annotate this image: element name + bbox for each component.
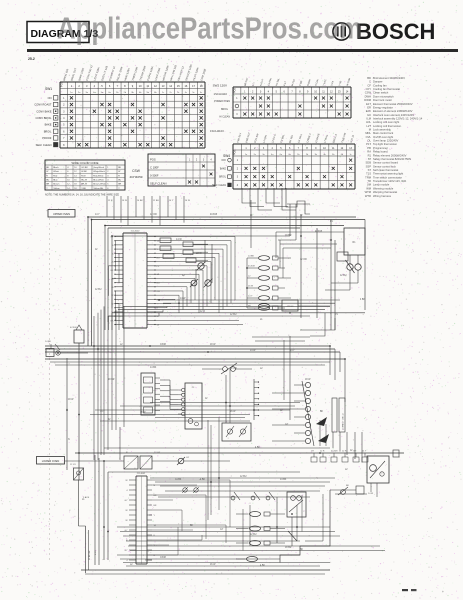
- svg-text:1c: 1c: [350, 154, 352, 156]
- svg-text:UPPER OVEN: UPPER OVEN: [53, 212, 70, 216]
- svg-text:Programmer: Programmer: [373, 146, 388, 150]
- svg-text:Relay element 2600W/240V: Relay element 2600W/240V: [373, 153, 407, 157]
- svg-text:Y-BK: Y-BK: [81, 188, 86, 190]
- svg-text:POS: POS: [150, 157, 156, 161]
- svg-text:SW2 120V: SW2 120V: [213, 84, 227, 88]
- svg-text:SDB: SDB: [365, 161, 371, 165]
- svg-text:T1S: T1S: [366, 172, 371, 176]
- svg-text:MDL: MDL: [365, 131, 371, 135]
- svg-text:OR: OR: [157, 291, 161, 293]
- svg-text:1SCH4110: 1SCH4110: [214, 92, 228, 96]
- svg-text:On/Off oven light: On/Off oven light: [373, 135, 393, 139]
- svg-text:WIRE COLOR CODE: WIRE COLOR CODE: [72, 161, 99, 165]
- svg-text:ILK: ILK: [367, 113, 371, 117]
- svg-text:Blue: Blue: [53, 179, 58, 181]
- svg-text:SW4: SW4: [223, 154, 230, 158]
- svg-text:Element of element 2400W/120V: Element of element 2400W/120V: [373, 109, 413, 113]
- svg-text:4CX08: 4CX08: [248, 266, 255, 268]
- svg-text:WTM: WTM: [365, 190, 372, 194]
- svg-text:1CL4002: 1CL4002: [131, 231, 141, 233]
- svg-text:Relay board: Relay board: [373, 150, 388, 154]
- svg-text:BROIL: BROIL: [44, 129, 52, 133]
- svg-text:C: C: [369, 80, 371, 84]
- svg-text:S7: S7: [368, 157, 372, 161]
- svg-text:Warming module: Warming module: [373, 186, 394, 190]
- svg-text:12 R: 12 R: [108, 200, 113, 202]
- svg-text:Transformer 120V-12V, 6VA: Transformer 120V-12V, 6VA: [373, 179, 406, 183]
- svg-text:Broil element 3400W/240V: Broil element 3400W/240V: [373, 76, 405, 80]
- svg-text:CF: CF: [367, 83, 371, 87]
- svg-text:12 BU: 12 BU: [153, 200, 159, 202]
- svg-text:LDL: LDL: [366, 120, 371, 124]
- svg-text:Locking coil oven light: Locking coil oven light: [373, 120, 400, 124]
- svg-text:POS: POS: [234, 150, 237, 155]
- svg-text:BAKE: BAKE: [45, 123, 52, 127]
- svg-text:BR: BR: [46, 184, 49, 186]
- svg-text:Main control lock: Main control lock: [373, 131, 394, 135]
- svg-text:SW1: SW1: [45, 87, 52, 91]
- svg-text:Door lock motor: Door lock motor: [373, 98, 392, 102]
- svg-text:SELF CLEAN: SELF CLEAN: [150, 181, 166, 185]
- svg-text:BROIL: BROIL: [219, 177, 227, 179]
- svg-text:ON: ON: [48, 96, 52, 100]
- svg-text:Lock assembly: Lock assembly: [373, 128, 391, 132]
- svg-text:Blue-White: Blue-White: [93, 178, 104, 181]
- svg-text:Damper: Damper: [373, 80, 383, 84]
- svg-text:BU: BU: [157, 257, 160, 259]
- svg-text:E2C: E2C: [366, 109, 371, 113]
- svg-text:P1T: P1T: [366, 142, 371, 146]
- svg-text:DWH: DWH: [365, 94, 371, 98]
- svg-text:CONV BROIL: CONV BROIL: [36, 116, 53, 120]
- svg-text:ST: ST: [368, 168, 372, 172]
- svg-text:14 BK: 14 BK: [137, 200, 143, 202]
- svg-text:Interlock oven element 240V/12: Interlock oven element 240V/120V: [373, 113, 414, 117]
- svg-text:Self clean thermostat: Self clean thermostat: [373, 168, 398, 172]
- svg-text:CONV ROAST: CONV ROAST: [34, 103, 52, 107]
- svg-text:Element thermostat 2500W/240V: Element thermostat 2500W/240V: [373, 102, 413, 106]
- svg-text:BROIL: BROIL: [221, 109, 229, 111]
- svg-text:DWM: DWM: [364, 98, 371, 102]
- svg-text:BR-W: BR-W: [81, 184, 88, 186]
- svg-text:POWER OVEN: POWER OVEN: [214, 101, 230, 103]
- svg-text:Gray-Black: Gray-Black: [93, 166, 105, 169]
- svg-text:OFF: OFF: [221, 160, 226, 162]
- svg-text:CFY: CFY: [366, 87, 372, 91]
- svg-text:18 W: 18 W: [196, 252, 202, 255]
- svg-text:White: White: [53, 170, 59, 173]
- svg-text:White-Black: White-Black: [93, 170, 106, 173]
- svg-text:1SCH4103: 1SCH4103: [210, 129, 224, 133]
- svg-text:Cooling fan thermostat: Cooling fan thermostat: [373, 87, 400, 91]
- svg-text:R1: R1: [368, 153, 372, 157]
- svg-text:Wiring harness: Wiring harness: [373, 194, 392, 198]
- svg-text:NOTE: THE NUMBERS (4, 14, 16,: NOTE: THE NUMBERS (4, 14, 16, 18) INDICA…: [45, 194, 119, 197]
- svg-text:BU: BU: [157, 283, 160, 285]
- svg-text:W-BK: W-BK: [81, 171, 87, 173]
- svg-text:CONV BAKE: CONV BAKE: [36, 109, 51, 113]
- svg-text:BAKE: BAKE: [220, 167, 227, 170]
- svg-text:Safety thermostat 820/241750N: Safety thermostat 820/241750N: [373, 157, 411, 161]
- svg-text:HI CLEAN: HI CLEAN: [219, 116, 230, 119]
- svg-text:BD: BD: [367, 76, 371, 80]
- svg-text:Brown: Brown: [53, 183, 60, 186]
- svg-text:14 W: 14 W: [176, 238, 182, 241]
- svg-text:Yellow: Yellow: [53, 188, 60, 190]
- svg-text:Interlock assembly 120V/1-12,: Interlock assembly 120V/1-12, 240V/1-14: [373, 116, 423, 120]
- svg-text:BOSCH: BOSCH: [356, 19, 435, 44]
- svg-text:14 Y: 14 Y: [169, 200, 174, 202]
- svg-text:Cooling fan: Cooling fan: [373, 83, 387, 87]
- svg-text:PROOF: PROOF: [42, 136, 52, 140]
- svg-text:25-2: 25-2: [28, 57, 35, 61]
- svg-text:Top light thermostat: Top light thermostat: [373, 142, 397, 146]
- svg-text:PR: PR: [367, 146, 371, 150]
- svg-text:Time switch commutator: Time switch commutator: [373, 175, 402, 179]
- svg-text:POS: POS: [60, 81, 64, 87]
- svg-text:Door microswitch: Door microswitch: [373, 94, 394, 98]
- svg-text:TRM: TRM: [365, 175, 372, 179]
- svg-text:POS: POS: [234, 88, 237, 93]
- svg-text:WM: WM: [366, 186, 372, 190]
- svg-text:SELF CLEAN: SELF CLEAN: [36, 143, 52, 147]
- svg-text:BU: BU: [46, 179, 49, 181]
- svg-text:CSW: CSW: [132, 169, 141, 173]
- svg-text:Sensor control lock: Sensor control lock: [373, 164, 397, 168]
- svg-text:Energy regulator: Energy regulator: [373, 105, 393, 109]
- svg-text:Oven lamp 120/240V: Oven lamp 120/240V: [373, 139, 398, 143]
- svg-text:Warming thermostat: Warming thermostat: [373, 190, 397, 194]
- svg-text:C 100F: C 100F: [150, 165, 159, 169]
- svg-text:OL: OL: [367, 139, 371, 143]
- svg-text:ER: ER: [367, 105, 371, 109]
- svg-text:14 BK: 14 BK: [248, 256, 254, 258]
- svg-text:Thermostat warming light: Thermostat warming light: [373, 172, 403, 176]
- svg-text:BR: BR: [118, 184, 121, 186]
- svg-text:Yellow-Blk: Yellow-Blk: [93, 188, 104, 190]
- svg-text:OVL: OVL: [366, 135, 372, 139]
- svg-text:L2T: L2T: [366, 124, 371, 128]
- svg-text:Sensor control board: Sensor control board: [373, 161, 398, 165]
- svg-text:CSW: CSW: [365, 91, 372, 95]
- svg-text:Clean switch: Clean switch: [373, 91, 389, 95]
- svg-text:RA: RA: [367, 150, 371, 154]
- svg-text:E1T: E1T: [366, 102, 371, 106]
- svg-text:Locking coil thermostat: Locking coil thermostat: [373, 124, 401, 128]
- svg-text:BU-W: BU-W: [81, 179, 88, 181]
- svg-text:SSP: SSP: [366, 164, 372, 168]
- svg-text:WTR: WTR: [365, 194, 371, 198]
- svg-text:ILM: ILM: [367, 116, 372, 120]
- svg-text:Lamp module: Lamp module: [373, 183, 390, 187]
- svg-text:BU: BU: [118, 179, 121, 181]
- svg-text:Red-White: Red-White: [93, 174, 104, 177]
- svg-text:Black: Black: [53, 167, 59, 169]
- svg-text:4CH4059: 4CH4059: [129, 175, 142, 179]
- svg-text:Brown-White: Brown-White: [93, 183, 106, 186]
- svg-text:GY-BK: GY-BK: [81, 167, 88, 169]
- svg-text:AppliancePartsPros.com: AppliancePartsPros.com: [57, 11, 362, 46]
- svg-text:TR: TR: [367, 179, 371, 183]
- svg-text:0-300F: 0-300F: [150, 173, 159, 177]
